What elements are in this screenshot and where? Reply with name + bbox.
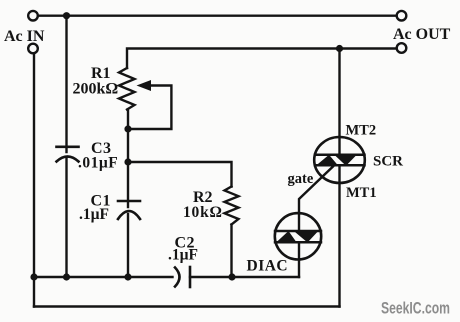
junction node left on mid rail: [30, 273, 37, 280]
wire SCR MT1 lead down to bottom rail: [338, 183, 340, 307]
DIAC upper chord: [275, 230, 321, 233]
wire SCR MT2 lead from second rail: [338, 49, 340, 138]
terminal Ac OUT bottom: [397, 43, 407, 53]
terminal Ac IN top: [28, 11, 38, 21]
DIAC circle: [275, 213, 321, 259]
svg-text:Ac OUT: Ac OUT: [393, 26, 451, 43]
resistor R2 zigzag: [225, 187, 239, 225]
wire C3 column upper: [65, 16, 67, 152]
SCR upper chord: [315, 154, 365, 157]
SCR left triangle: [316, 155, 339, 166]
junction node R1 wiper bottom: [124, 125, 131, 132]
wire R1 wiper loop: [131, 86, 171, 130]
capacitor C3 top plate: [57, 146, 79, 149]
junction node top rail: [63, 12, 70, 19]
svg-text:gate: gate: [288, 171, 314, 187]
wire R1/C1 column: R1 bottom lead to C1: [127, 110, 129, 208]
wire mid ground rail at y=277: [34, 276, 173, 278]
SCR interior vertical lead: [338, 137, 340, 154]
svg-text:200kΩ: 200kΩ: [73, 81, 119, 98]
potentiometer R1 wiper arrowhead: [137, 80, 152, 91]
svg-text:DIAC: DIAC: [247, 258, 289, 275]
capacitor C2 straight plate: [189, 267, 192, 287]
DIAC interior vertical lead: [298, 214, 300, 231]
svg-text:MT2: MT2: [346, 123, 377, 139]
junction node R1/C1/R2: [124, 158, 131, 165]
wire mid ground rail right of C2: [190, 276, 299, 278]
svg-text:SCR: SCR: [373, 154, 403, 170]
svg-text:10kΩ: 10kΩ: [183, 204, 223, 221]
wire horizontal from R1 node to R2 top: [128, 162, 232, 187]
wire DIAC bottom lead: [298, 260, 300, 278]
svg-text:SeekIC.com: SeekIC.com: [381, 300, 450, 318]
wire top rail from Ac IN top to Ac OUT top: [38, 14, 397, 16]
wire gate diagonal from SCR to DIAC: [299, 167, 333, 214]
svg-text:.1µF: .1µF: [168, 247, 198, 264]
svg-text:R1: R1: [91, 65, 111, 82]
capacitor C3 curved plate: [57, 157, 79, 162]
SCR circle U1: [314, 137, 365, 183]
capacitor C1 curved plate: [118, 211, 140, 219]
svg-text:MT1: MT1: [346, 185, 377, 201]
DIAC lower chord: [275, 241, 321, 244]
DIAC right triangle: [294, 231, 319, 243]
wire bottom rail: [34, 305, 340, 307]
junction node C1 on mid rail: [124, 273, 131, 280]
capacitor C1 top plate: [118, 200, 140, 203]
junction node MT2 on second rail: [336, 45, 343, 52]
svg-text:Ac IN: Ac IN: [4, 28, 45, 45]
capacitor C2 curved plate: [175, 268, 180, 287]
resistor R1 zigzag: [119, 68, 135, 110]
svg-text:.01µF: .01µF: [78, 155, 118, 172]
wire C3 column lower: [65, 157, 67, 277]
SCR lower chord: [315, 164, 365, 167]
wire C1 bottom lead: [127, 214, 129, 277]
wire second rail from R1 top to Ac OUT bottom: [127, 49, 397, 69]
wire left column from Ac IN bottom down to bottom rail: [33, 54, 35, 307]
junction node R2/C2 on mid rail: [228, 273, 235, 280]
DIAC left triangle: [276, 231, 298, 243]
terminal Ac OUT top: [397, 11, 407, 21]
wire R2 bottom lead: [230, 225, 232, 278]
SCR right triangle: [334, 155, 357, 166]
svg-text:.1µF: .1µF: [79, 206, 109, 223]
junction node C3 on mid rail: [63, 273, 70, 280]
terminal Ac IN bottom: [28, 44, 38, 54]
